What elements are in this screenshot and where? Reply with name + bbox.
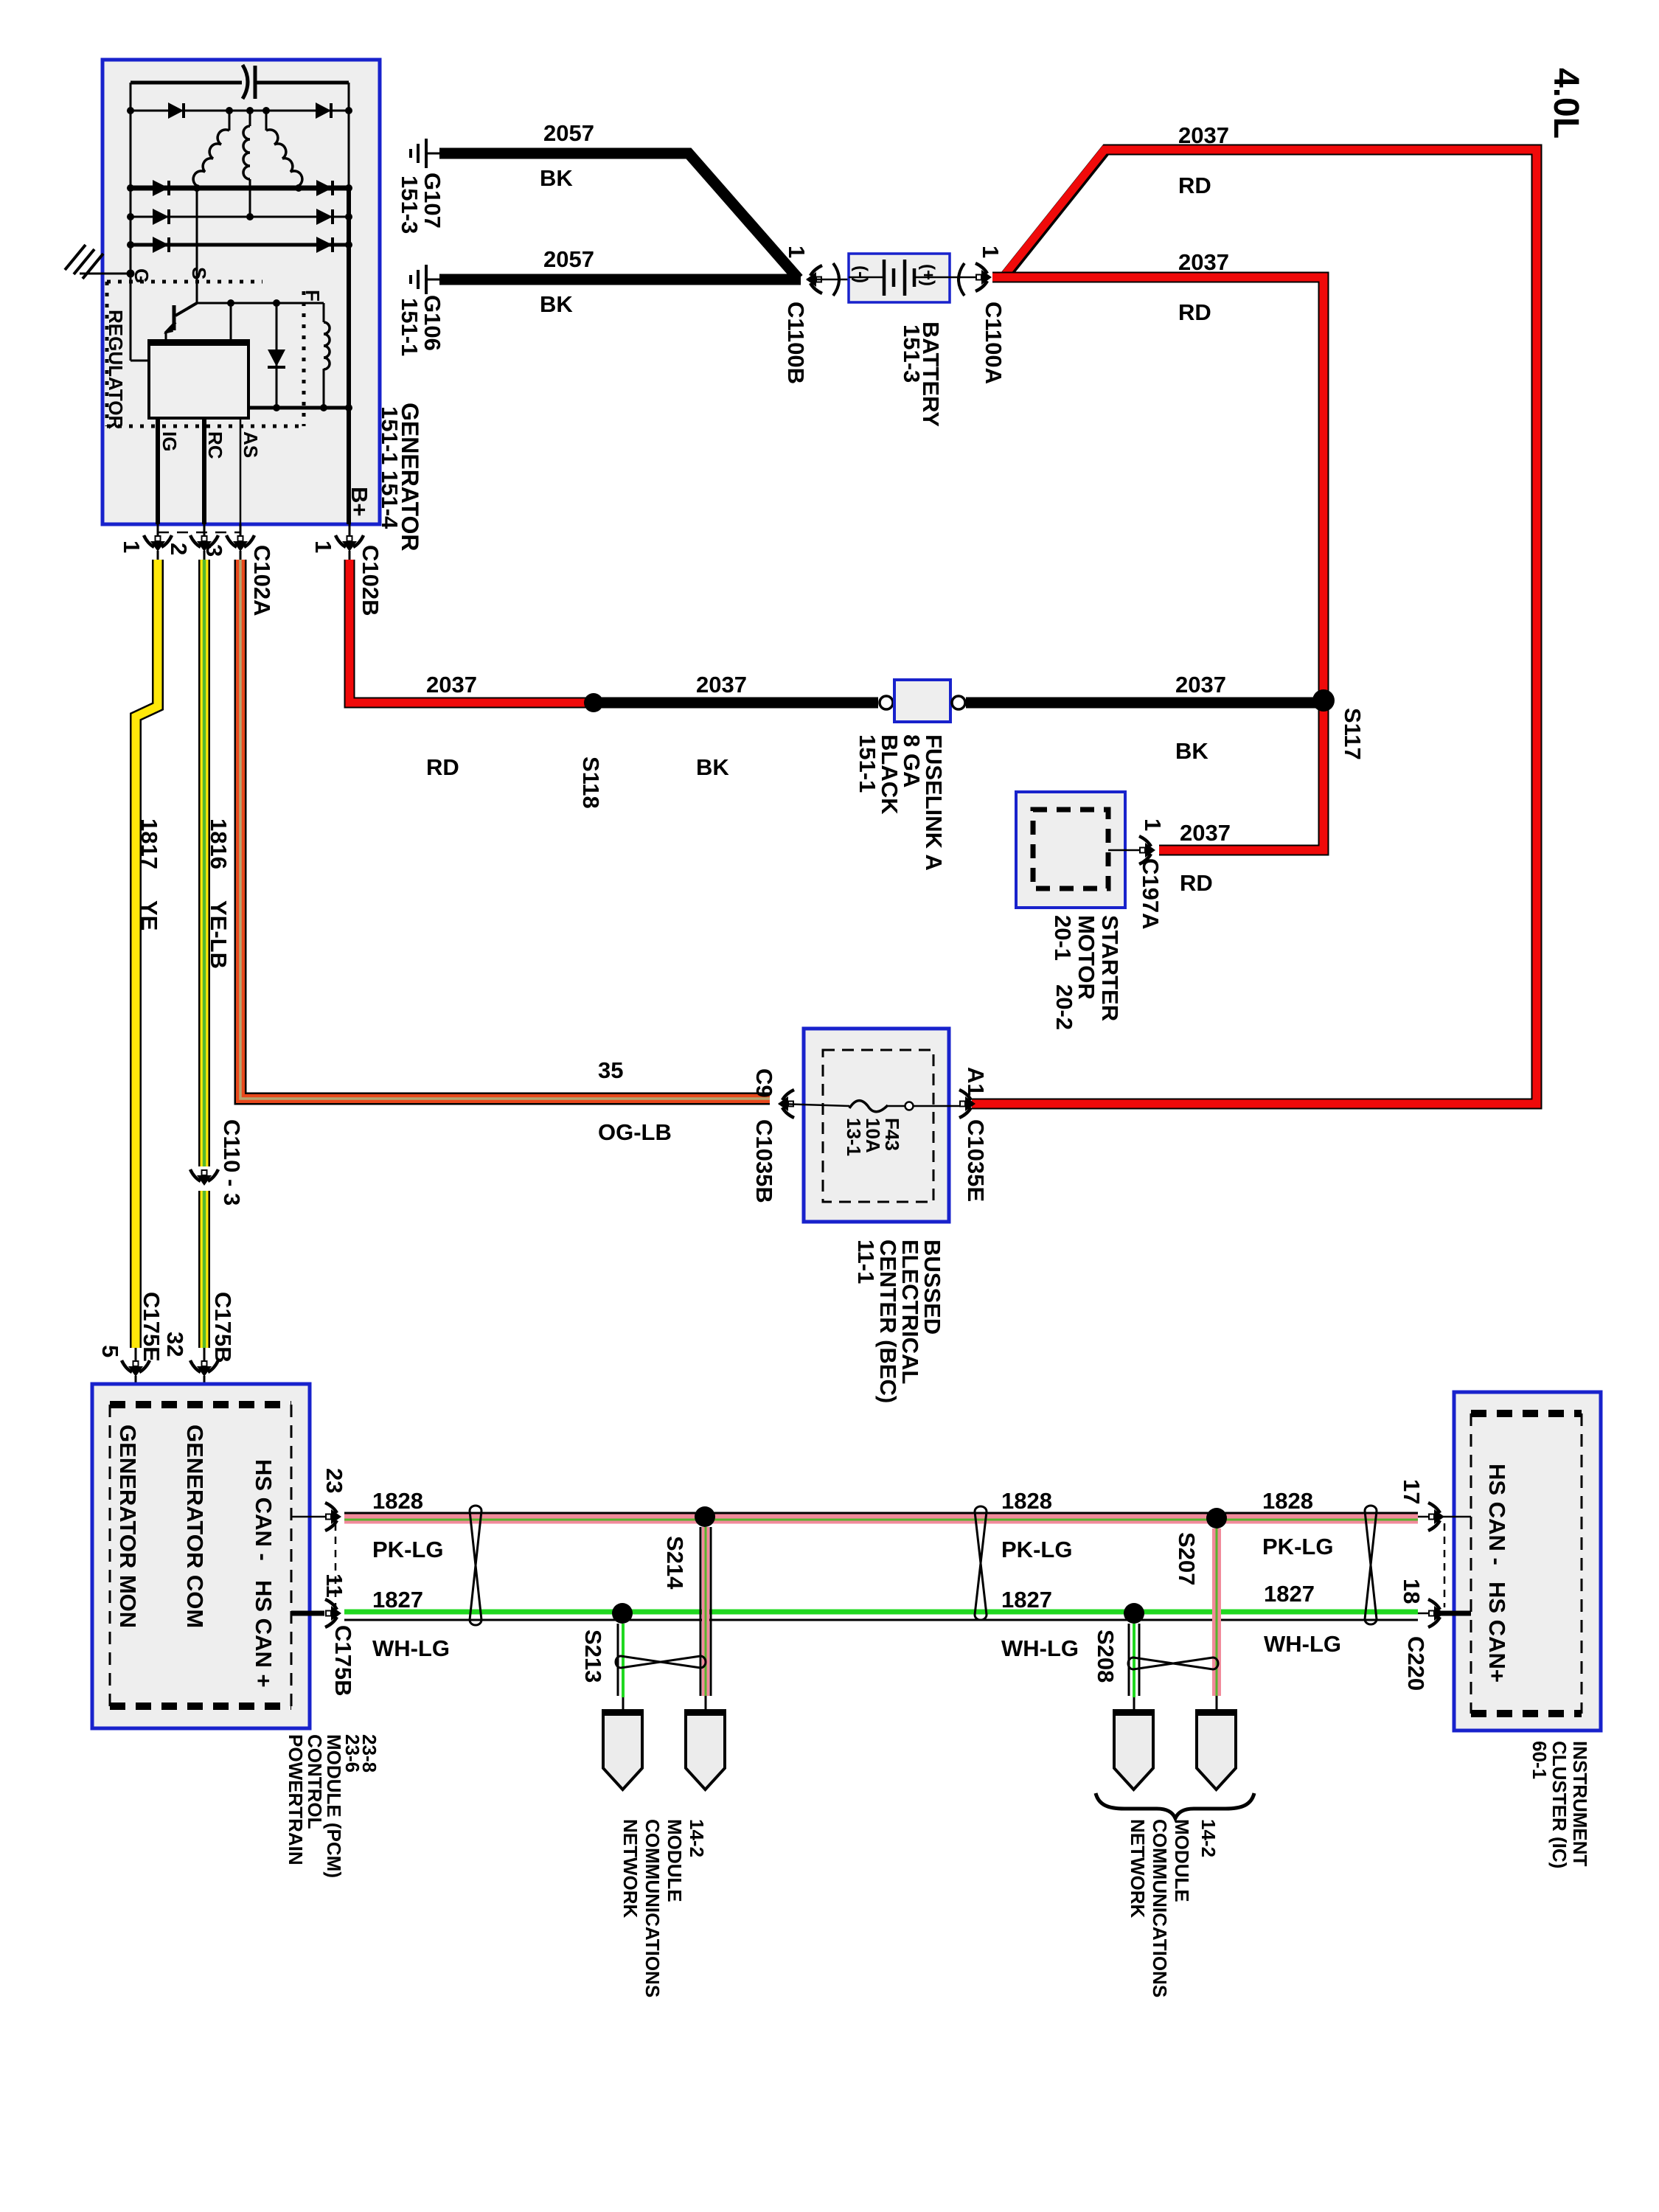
bussed electrical center box — [804, 1029, 949, 1222]
svg-text:G: G — [131, 268, 153, 283]
svg-text:2: 2 — [166, 543, 192, 555]
stator winding L2 — [243, 126, 250, 179]
svg-text:C175B: C175B — [210, 1292, 236, 1363]
svg-text:C9: C9 — [751, 1068, 777, 1098]
instrument cluster box — [1454, 1392, 1601, 1731]
wire S207 drop — [1212, 1528, 1221, 1711]
wire 2057 BK lower — [439, 274, 801, 285]
svg-text:35: 35 — [598, 1057, 623, 1083]
svg-text:151-3: 151-3 — [899, 324, 925, 383]
diode C-left — [153, 209, 169, 225]
wire diode row C — [131, 216, 349, 218]
svg-text:14-2: 14-2 — [1197, 1819, 1220, 1857]
connector C102A pin1 — [144, 524, 172, 560]
svg-text:C102A: C102A — [249, 545, 275, 616]
connector C102A pin2 — [190, 524, 218, 560]
ground G106 — [411, 265, 441, 294]
svg-text:INSTRUMENT: INSTRUMENT — [1569, 1741, 1591, 1867]
svg-text:S208: S208 — [1093, 1630, 1119, 1683]
wire diode row B — [131, 186, 349, 191]
svg-text:C1100B: C1100B — [783, 302, 809, 384]
battery 151-3 — [849, 254, 950, 302]
svg-text:1827: 1827 — [372, 1587, 423, 1613]
wire S213 drop — [618, 1624, 623, 1711]
wire S column — [196, 188, 198, 303]
svg-text:F: F — [302, 290, 324, 302]
node bottom rail — [273, 404, 352, 411]
connector C102B pin1 — [335, 524, 364, 560]
svg-text:1: 1 — [310, 540, 336, 553]
svg-text:REGULATOR: REGULATOR — [105, 310, 127, 429]
svg-text:BK: BK — [540, 165, 573, 191]
svg-text:4.0L: 4.0L — [1546, 68, 1585, 139]
svg-text:1827: 1827 — [1264, 1581, 1315, 1607]
node S207 — [1206, 1508, 1227, 1528]
svg-text:C1035E: C1035E — [963, 1119, 989, 1202]
svg-text:OG-LB: OG-LB — [598, 1119, 672, 1145]
svg-text:C220: C220 — [1403, 1636, 1429, 1691]
wire S208 drop — [1129, 1624, 1139, 1711]
svg-text:RD: RD — [1178, 299, 1211, 325]
diode C-right — [316, 209, 333, 225]
svg-text:STARTER: STARTER — [1097, 915, 1123, 1021]
node rail joints — [227, 299, 280, 307]
svg-text:2037: 2037 — [1178, 249, 1229, 275]
wire left bus — [130, 83, 132, 274]
svg-text:CONTROL: CONTROL — [304, 1734, 326, 1829]
twisted pair symbol 3 — [1365, 1506, 1377, 1624]
svg-text:PK-LG: PK-LG — [1001, 1537, 1072, 1562]
connector C175E pin5 — [122, 1348, 150, 1405]
starter motor box — [1016, 792, 1125, 908]
svg-text:2037: 2037 — [696, 672, 747, 698]
capacitor C — [131, 65, 349, 99]
svg-text:14-2: 14-2 — [686, 1819, 708, 1857]
svg-text:11-1: 11-1 — [853, 1239, 879, 1284]
svg-text:(-): (-) — [851, 265, 871, 283]
node G — [127, 270, 135, 278]
pin 23 stub — [291, 1503, 341, 1531]
svg-text:MODULE: MODULE — [664, 1819, 686, 1902]
wire 1816 YE-LB lower — [198, 1191, 210, 1348]
svg-text:YE-LB: YE-LB — [206, 900, 232, 969]
wire regulator top rail — [197, 302, 324, 305]
svg-text:2037: 2037 — [1178, 122, 1229, 148]
svg-text:RD: RD — [1180, 870, 1213, 896]
svg-text:151-4: 151-4 — [377, 470, 403, 529]
diode A-right — [316, 102, 331, 119]
pin IG — [156, 418, 160, 524]
module connector pentagon 4 — [1197, 1711, 1236, 1790]
svg-text:S207: S207 — [1174, 1532, 1200, 1585]
svg-text:151-1: 151-1 — [855, 734, 880, 793]
wire 1827 WH-LG bus — [344, 1612, 1418, 1620]
svg-text:1828: 1828 — [1001, 1488, 1052, 1514]
node S213 — [612, 1603, 633, 1624]
module connector pentagon 3 — [1114, 1711, 1153, 1790]
connector A1 C1035E — [959, 1090, 975, 1118]
svg-text:HS CAN +: HS CAN + — [251, 1580, 276, 1688]
svg-text:GENERATOR MON: GENERATOR MON — [115, 1425, 141, 1628]
svg-text:BK: BK — [696, 754, 729, 780]
svg-text:MODULE: MODULE — [1171, 1819, 1193, 1902]
svg-text:A1: A1 — [963, 1067, 989, 1096]
wire 2037 RD top loop — [972, 150, 1537, 1104]
svg-text:C1100A: C1100A — [981, 302, 1006, 384]
fuse F43 — [849, 1101, 963, 1112]
connector C102A pin3 — [226, 524, 254, 560]
fuselink A — [880, 680, 965, 722]
svg-text:B+: B+ — [347, 487, 372, 517]
svg-text:1828: 1828 — [372, 1488, 423, 1514]
svg-text:PK-LG: PK-LG — [372, 1537, 443, 1562]
ground chassis hatch — [65, 245, 103, 279]
svg-text:PK-LG: PK-LG — [1262, 1534, 1333, 1559]
svg-text:1816: 1816 — [206, 818, 232, 869]
svg-text:23: 23 — [321, 1468, 347, 1493]
node S117 — [1312, 689, 1335, 712]
svg-text:COMMUNICATIONS: COMMUNICATIONS — [641, 1819, 664, 1997]
svg-text:S: S — [188, 267, 210, 279]
node S208 — [1124, 1603, 1144, 1624]
svg-text:2037: 2037 — [1175, 672, 1226, 698]
connector C110-3 — [190, 1169, 218, 1186]
diode D-left — [153, 237, 169, 253]
wire rail drop to block — [230, 303, 232, 341]
brace right modules — [1096, 1793, 1254, 1818]
node winding joints — [193, 184, 302, 220]
wire ground lead — [80, 273, 131, 275]
svg-text:1: 1 — [784, 246, 810, 258]
svg-text:(+): (+) — [918, 264, 938, 286]
svg-text:32: 32 — [162, 1332, 188, 1357]
wire 2037 BK to fuselink — [594, 698, 878, 709]
svg-text:IG: IG — [159, 431, 181, 451]
diode B-left — [153, 180, 169, 196]
pin 17 stub — [1418, 1503, 1471, 1531]
svg-text:NETWORK: NETWORK — [619, 1819, 641, 1919]
svg-text:COMMUNICATIONS: COMMUNICATIONS — [1149, 1819, 1171, 1997]
svg-text:C175E: C175E — [139, 1292, 164, 1362]
svg-text:151-1: 151-1 — [397, 298, 422, 356]
connector C9 C1035B — [778, 1090, 849, 1118]
svg-text:G107: G107 — [420, 173, 445, 229]
svg-text:1828: 1828 — [1262, 1488, 1313, 1514]
field coil — [324, 303, 330, 408]
svg-text:WH-LG: WH-LG — [1001, 1635, 1079, 1661]
wire 2037 RD from C102B — [349, 560, 594, 703]
svg-text:RD: RD — [1178, 173, 1211, 198]
pin 18 stub — [1418, 1599, 1471, 1627]
svg-text:2037: 2037 — [426, 672, 477, 698]
wire 1817 YE — [136, 560, 158, 1348]
svg-text:151-3: 151-3 — [397, 175, 422, 234]
svg-text:1: 1 — [978, 246, 1004, 258]
node bus junctions — [127, 107, 352, 248]
connector C1100B — [806, 263, 849, 296]
svg-text:2057: 2057 — [543, 120, 594, 146]
wire B+ right bus — [348, 83, 350, 188]
wire regulator bottom rail — [248, 406, 349, 410]
wire L2 to row C — [249, 179, 251, 217]
wire 2037 BK to S117 — [966, 698, 1324, 709]
diode D-right — [316, 237, 333, 253]
svg-text:C110 - 3: C110 - 3 — [219, 1119, 245, 1206]
svg-text:BK: BK — [1175, 738, 1208, 764]
svg-text:5: 5 — [97, 1345, 123, 1357]
connector C175B dashed bracket — [335, 1523, 337, 1607]
svg-text:G106: G106 — [420, 295, 445, 351]
svg-text:HS CAN -: HS CAN - — [1484, 1464, 1510, 1565]
svg-text:20-1: 20-1 — [1050, 915, 1076, 961]
ground G107 — [411, 139, 441, 168]
svg-text:S117: S117 — [1340, 708, 1366, 760]
connector C175B pin32 — [190, 1348, 218, 1405]
wire 2057 BK upper — [439, 153, 799, 279]
wire S214 drop — [700, 1527, 711, 1711]
pin AS — [240, 418, 242, 524]
svg-text:CLUSTER (IC): CLUSTER (IC) — [1548, 1741, 1571, 1868]
svg-text:YE: YE — [136, 900, 162, 931]
module connector pentagon 2 — [686, 1711, 725, 1790]
node row A taps — [226, 107, 270, 131]
svg-text:C102B: C102B — [358, 545, 383, 616]
svg-text:13-1: 13-1 — [843, 1118, 865, 1156]
svg-text:C197A: C197A — [1138, 858, 1164, 930]
svg-text:20-2: 20-2 — [1051, 984, 1077, 1030]
wire G column into regulator — [131, 274, 150, 361]
svg-text:1: 1 — [119, 540, 145, 553]
svg-text:GENERATOR COM: GENERATOR COM — [182, 1425, 208, 1628]
regulator block U1 — [147, 341, 250, 418]
svg-text:S213: S213 — [580, 1630, 606, 1683]
svg-text:C1035B: C1035B — [751, 1119, 777, 1203]
node S118 — [584, 693, 603, 712]
twisted pair symbol 1 — [470, 1506, 481, 1625]
svg-text:1827: 1827 — [1001, 1587, 1052, 1613]
connector C220 dashed bracket — [1444, 1523, 1446, 1607]
svg-text:WH-LG: WH-LG — [1264, 1631, 1341, 1657]
wire diode row A — [131, 110, 349, 112]
transistor Q1 — [164, 303, 197, 341]
regulator dashed box — [107, 282, 304, 426]
generator box — [102, 60, 380, 524]
svg-text:C175B: C175B — [330, 1625, 356, 1697]
wire 2037 RD battery feed — [992, 277, 1324, 850]
svg-text:S118: S118 — [578, 757, 604, 809]
svg-text:HS CAN+: HS CAN+ — [1484, 1582, 1510, 1683]
wire diode row D — [131, 243, 349, 247]
svg-text:1817: 1817 — [136, 818, 162, 869]
twisted pair symbol right drops — [1128, 1658, 1218, 1669]
diode D9 regulator — [268, 303, 285, 408]
svg-text:2037: 2037 — [1180, 820, 1231, 846]
module connector pentagon 1 — [603, 1711, 642, 1790]
diode A-left — [168, 102, 184, 119]
wire 1816 YE-LB upper — [198, 560, 210, 1166]
svg-text:11: 11 — [321, 1573, 347, 1598]
svg-text:RC: RC — [204, 431, 226, 459]
connector C197A — [1108, 836, 1155, 864]
connector C102A dashed bracket — [158, 532, 240, 534]
twisted pair symbol left drops — [616, 1656, 706, 1668]
diode B-right — [316, 180, 333, 196]
twisted pair symbol 2 — [975, 1506, 987, 1620]
wire 1828 PK-LG bus — [344, 1513, 1418, 1520]
svg-text:151-1: 151-1 — [377, 406, 403, 465]
svg-text:2057: 2057 — [543, 246, 594, 272]
svg-text:HS CAN -: HS CAN - — [251, 1459, 276, 1561]
svg-text:60-1: 60-1 — [1528, 1741, 1551, 1779]
svg-text:23-8: 23-8 — [358, 1734, 380, 1773]
svg-text:1: 1 — [1140, 818, 1166, 831]
svg-text:RD: RD — [426, 754, 459, 780]
powertrain control module box — [92, 1384, 310, 1728]
stator winding L3 — [266, 130, 302, 186]
svg-text:3: 3 — [201, 544, 227, 557]
svg-text:17: 17 — [1399, 1479, 1425, 1504]
svg-text:S214: S214 — [662, 1536, 688, 1590]
wire 35 OG-LB — [240, 560, 770, 1099]
svg-text:WH-LG: WH-LG — [372, 1635, 450, 1661]
pin 11 stub — [291, 1599, 341, 1627]
svg-text:18: 18 — [1399, 1579, 1425, 1604]
svg-text:AS: AS — [240, 431, 262, 458]
svg-text:NETWORK: NETWORK — [1127, 1819, 1149, 1919]
stator winding L1 — [193, 130, 229, 186]
node S214 — [695, 1506, 715, 1527]
svg-text:POWERTRAIN: POWERTRAIN — [285, 1734, 307, 1865]
svg-text:BK: BK — [540, 291, 573, 317]
connector C1100A — [950, 263, 992, 296]
pin RC — [202, 418, 206, 524]
